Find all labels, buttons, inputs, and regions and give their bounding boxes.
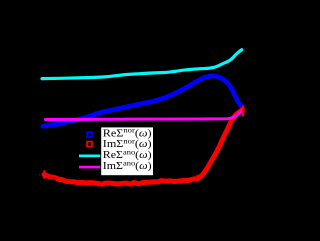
curve ReSigma-ano (cyan) [42,50,242,79]
legend key line cyan [79,155,101,158]
red end error bar [242,106,244,117]
red rise jag nubs [197,128,231,176]
legend marker square red [87,142,92,147]
red dim left dot [39,174,41,175]
curve ReSigma-nor (blue) [43,76,243,126]
legend box [101,127,154,176]
legend marker square blue [87,132,92,137]
curve ImSigma-ano (magenta) [46,110,243,120]
curve ImSigma-nor (red) main [44,110,242,185]
red left error spike [43,170,45,179]
legend key line magenta [79,166,101,169]
